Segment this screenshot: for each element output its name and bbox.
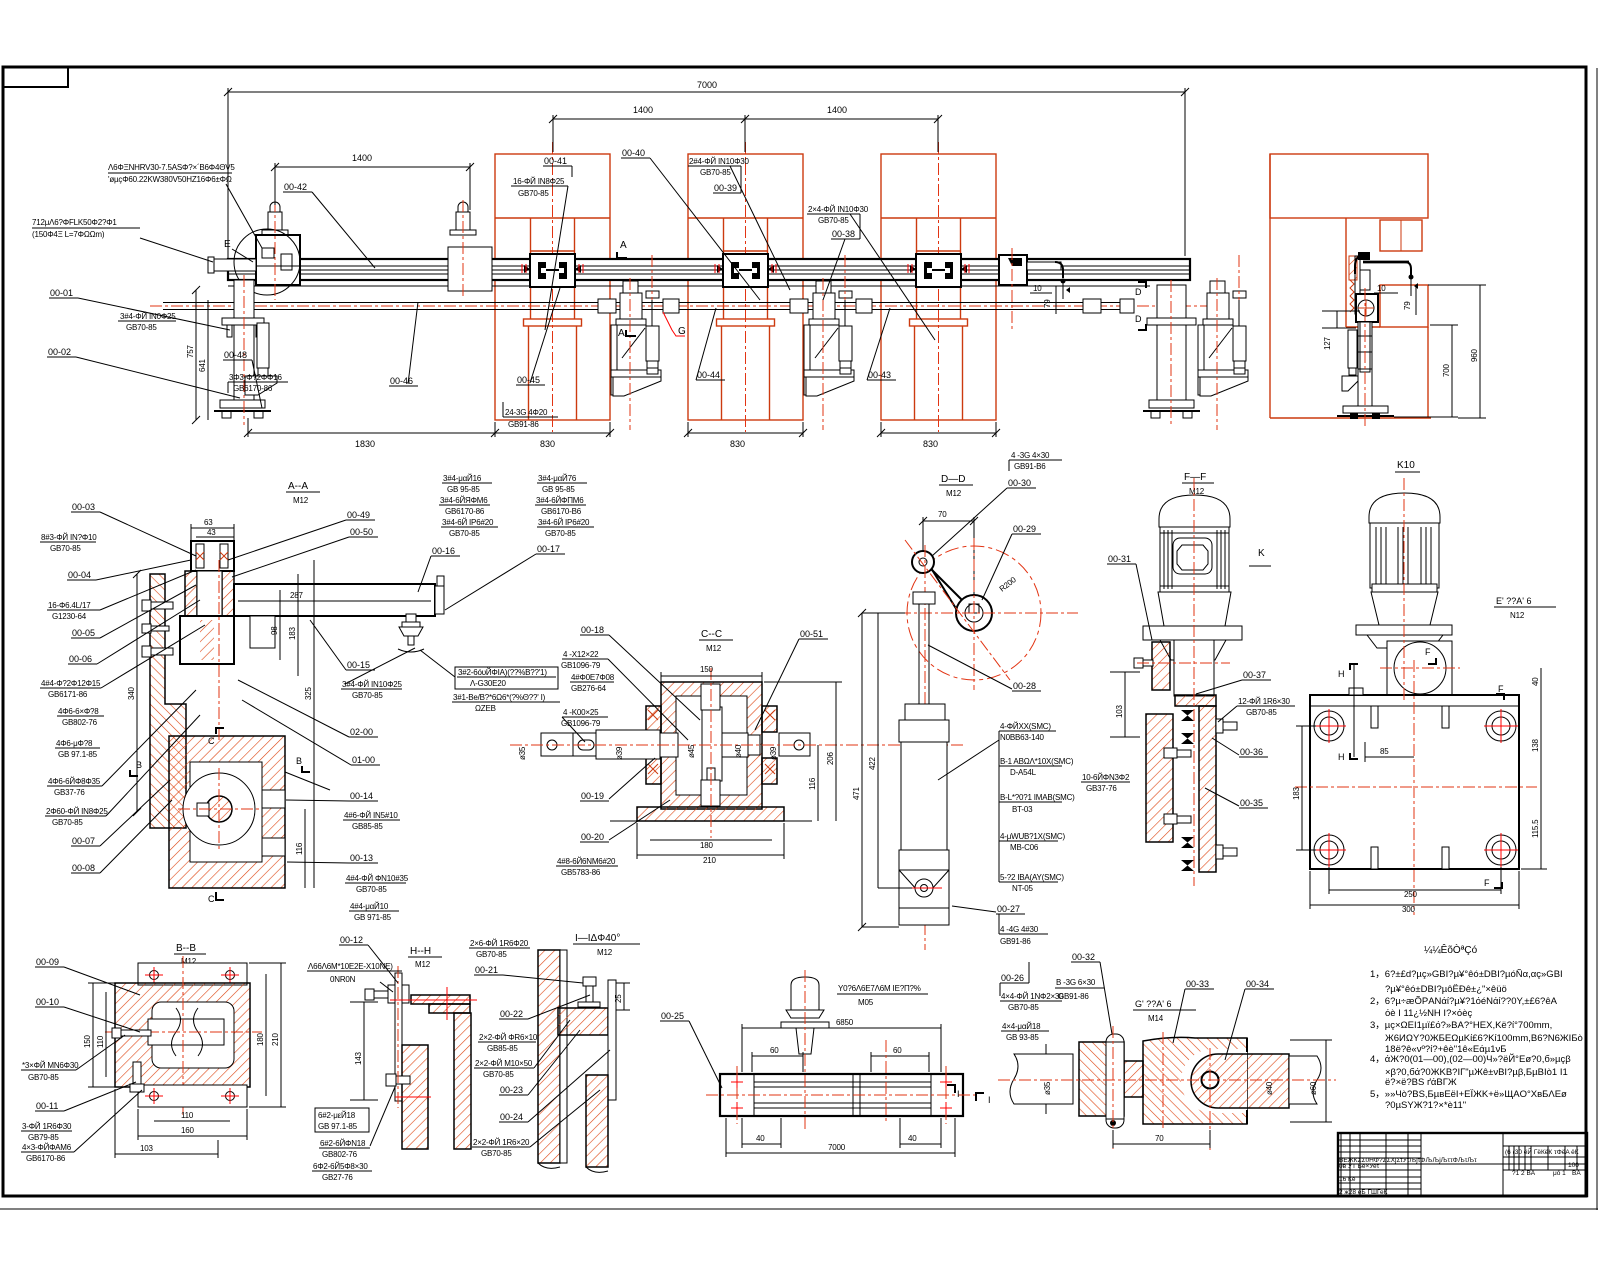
svg-text:110: 110: [181, 1111, 194, 1120]
side feeder clamp block: [1358, 252, 1370, 260]
svg-text:ΩΖΕΒ: ΩΖΕΒ: [475, 704, 496, 713]
dim 43: [196, 536, 234, 538]
svg-text:6#2-μεЙ18: 6#2-μεЙ18: [318, 1111, 356, 1120]
svg-text:00-09: 00-09: [36, 957, 59, 967]
bolt hole TR: [1486, 711, 1516, 741]
svg-text:GB70-85: GB70-85: [356, 885, 387, 894]
svg-text:GB 97.1-85: GB 97.1-85: [58, 750, 98, 759]
svg-text:F: F: [1425, 647, 1431, 657]
svg-text:I: I: [957, 1089, 960, 1099]
svg-text:ø35: ø35: [1043, 1081, 1052, 1095]
svg-text:3-ΦЙ 1R6Φ30: 3-ΦЙ 1R6Φ30: [22, 1122, 72, 1131]
svg-text:70: 70: [938, 510, 947, 519]
svg-text:79: 79: [1403, 301, 1412, 310]
svg-text:Ж6ИΩY?0ЖБEΩµKί£6?Kί100mm,B6?N6: Ж6ИΩY?0ЖБEΩµKί£6?Kί100mm,B6?N6ЖIБò: [1385, 1033, 1583, 1044]
press frame 3 (red): [881, 154, 996, 420]
svg-text:N0BB63-140: N0BB63-140: [1000, 733, 1045, 742]
dim 116: [304, 809, 306, 888]
bracket hatched: [558, 1008, 608, 1035]
svg-text:B-1 ABΩΛ*10Χ(SMC): B-1 ABΩΛ*10Χ(SMC): [1000, 757, 1074, 766]
dimension 7000: [228, 91, 1185, 93]
shaft coupling 4: [856, 299, 872, 313]
bolts right: [1216, 719, 1237, 733]
base plate: [1310, 695, 1519, 869]
svg-text:2 ж28 еБ ГШГеК: 2 ж28 еБ ГШГеК: [1339, 1189, 1388, 1196]
dim 103: [115, 1153, 218, 1155]
sheet corner zone box: [3, 67, 68, 87]
svg-text:40: 40: [756, 1134, 765, 1143]
svg-text:4-μWUB?1Χ(SMC): 4-μWUB?1Χ(SMC): [1000, 832, 1065, 841]
carriage bearing block 3: [910, 254, 967, 287]
svg-text:¼¼ÊõÒªÇó: ¼¼ÊõÒªÇó: [1424, 943, 1478, 956]
dim 110 left: [105, 992, 107, 1077]
side feeder screw column (red): [1350, 280, 1354, 312]
dim 60 right: [871, 1055, 929, 1057]
svg-text:3#4-6ЙЯΦΜ6: 3#4-6ЙЯΦΜ6: [440, 496, 488, 505]
svg-text:00-14: 00-14: [350, 791, 373, 801]
svg-text:ø40: ø40: [1265, 1081, 1274, 1095]
left stub shaft: [208, 257, 256, 273]
svg-text:70: 70: [1155, 1134, 1164, 1143]
svg-text:GB6170-B6: GB6170-B6: [541, 507, 582, 516]
svg-text:00-46: 00-46: [390, 376, 413, 386]
svg-text:GB70-85: GB70-85: [818, 216, 849, 225]
svg-text:GB70-85: GB70-85: [352, 691, 383, 700]
svg-text:GB27-76: GB27-76: [322, 1173, 353, 1182]
clamp bracket top: [191, 541, 234, 571]
motor flange: [1356, 625, 1452, 635]
shaft centerline: [510, 744, 965, 746]
bottom plate: [138, 1085, 247, 1107]
carriage bearing block 1: [524, 254, 581, 287]
suction cup unit: [398, 614, 424, 652]
svg-text:ë?×ë?BЅ ґάBГЖ: ë?×ë?BЅ ґάBГЖ: [1385, 1077, 1457, 1088]
centerline: [1193, 478, 1195, 886]
motor dome: [1159, 495, 1230, 527]
svg-text:BA: BA: [1572, 1170, 1581, 1177]
section marks I: [947, 1085, 955, 1093]
main beam: [228, 259, 1190, 280]
cylinder head: [899, 720, 949, 742]
bolt through plate: [365, 985, 409, 1003]
svg-text:NT-05: NT-05: [1012, 884, 1034, 893]
svg-text:641: 641: [198, 359, 207, 372]
side bolt 1: [142, 600, 173, 611]
dim 180: [265, 974, 267, 1096]
shaft left end: [541, 733, 573, 756]
svg-text:00-01: 00-01: [50, 288, 73, 298]
svg-text:00-20: 00-20: [581, 832, 604, 842]
svg-text:00-07: 00-07: [72, 836, 95, 846]
svg-text:GB70-85: GB70-85: [50, 544, 81, 553]
svg-text:1400: 1400: [633, 105, 653, 115]
motor dome: [1369, 493, 1440, 523]
svg-text:M14: M14: [1148, 1014, 1164, 1023]
svg-text:GB70-85: GB70-85: [28, 1073, 59, 1082]
svg-text:F: F: [1484, 878, 1490, 888]
dim 98: [279, 590, 281, 660]
svg-text:00-51: 00-51: [800, 629, 823, 639]
dim 79 side: [1415, 285, 1417, 315]
svg-text:40: 40: [1531, 677, 1540, 686]
svg-text:GB 971-85: GB 971-85: [354, 913, 392, 922]
svg-text:2×2-ΦЙ Μ10×50: 2×2-ΦЙ Μ10×50: [475, 1059, 533, 1068]
svg-text:00-34: 00-34: [1246, 979, 1269, 989]
svg-text:K10: K10: [1397, 460, 1415, 471]
drive shaft centerline: [150, 305, 1210, 307]
svg-text:F: F: [1498, 684, 1504, 694]
svg-text:116: 116: [295, 842, 304, 855]
svg-text:00-23: 00-23: [500, 1085, 523, 1095]
svg-text:μó 1: μó 1: [1553, 1170, 1566, 1177]
svg-text:2×4-ΦЙ ΙΝ10Φ30: 2×4-ΦЙ ΙΝ10Φ30: [808, 205, 869, 214]
svg-text:3，µç×ΩEI1µï£ό?»BA?°ΗEΧ,Kë?ί°70: 3，µç×ΩEI1µï£ό?»BA?°ΗEΧ,Kë?ί°700mm,: [1370, 1020, 1552, 1031]
svg-text:00-16: 00-16: [432, 546, 455, 556]
svg-text:3#4-6Й ΙΡ6#20: 3#4-6Й ΙΡ6#20: [442, 518, 494, 527]
lower plate hatched: [1146, 714, 1173, 842]
svg-text:79: 79: [1043, 299, 1052, 308]
svg-text:4#4-μαЙ10: 4#4-μαЙ10: [350, 902, 389, 911]
dimension 830 (frame1): [495, 432, 610, 434]
motor face plate: [1173, 538, 1212, 574]
shaft coupling 5: [1083, 299, 1101, 313]
shaft coupling 2: [663, 299, 679, 313]
dim 325: [313, 560, 315, 888]
svg-text:00-35: 00-35: [1240, 798, 1263, 808]
dim 138: [1540, 700, 1542, 787]
side leg base: [1343, 406, 1388, 413]
svg-text:3#1-Βе/Β?*6Ω6*(?%Θ??' Ι): 3#1-Βе/Β?*6Ω6*(?%Θ??' Ι): [453, 693, 546, 702]
left column hatched: [538, 950, 560, 1163]
motor bell: [1371, 592, 1438, 625]
left drive motor: [262, 202, 288, 235]
svg-text:183: 183: [1292, 787, 1301, 800]
svg-text:1400: 1400: [352, 153, 372, 163]
svg-text:4Φ6-μΦ?8: 4Φ6-μΦ?8: [56, 739, 93, 748]
svg-text:00-22: 00-22: [500, 1009, 523, 1019]
mid bolt: [386, 1074, 410, 1086]
svg-text:00-04: 00-04: [68, 570, 91, 580]
svg-text:M12: M12: [946, 489, 962, 498]
svg-text:287: 287: [290, 591, 303, 600]
svg-text:183: 183: [288, 627, 297, 640]
svg-text:GB70-85: GB70-85: [1008, 1003, 1039, 1012]
svg-text:250: 250: [1404, 890, 1417, 899]
svg-text:0в УΤ Бе×Уеτ: 0в УΤ Бе×Уеτ: [1339, 1163, 1380, 1170]
label G red: [663, 312, 685, 336]
svg-text:GB70-85: GB70-85: [476, 950, 507, 959]
dim 287 inside arm: [238, 600, 431, 602]
dim 40 right: [900, 1143, 941, 1145]
jack gearbox unit C: [1198, 281, 1248, 396]
svg-text:830: 830: [923, 439, 938, 449]
svg-text:GB37-76: GB37-76: [54, 788, 85, 797]
bolt hole BR: [1486, 835, 1516, 865]
svg-text:116: 116: [808, 777, 817, 790]
pump column: [1174, 640, 1214, 696]
side press column left edge: [1345, 218, 1347, 327]
right support leg: [1143, 285, 1200, 418]
svg-text:7000: 7000: [828, 1143, 846, 1152]
svg-text:4#4-Φ?2Φ12Φ15: 4#4-Φ?2Φ12Φ15: [41, 679, 101, 688]
top bar: [411, 995, 470, 1004]
svg-text:B: B: [136, 760, 142, 770]
svg-text:00-48: 00-48: [224, 350, 247, 360]
side bolt 2: [142, 646, 173, 657]
svg-text:3#4-6Й ΙΡ6#20: 3#4-6Й ΙΡ6#20: [538, 518, 590, 527]
press frame 1 centerline: [552, 142, 554, 432]
svg-text:00-44: 00-44: [697, 370, 720, 380]
svg-text:GB70-85: GB70-85: [700, 168, 731, 177]
svg-text:00-30: 00-30: [1008, 478, 1031, 488]
svg-text:2×2-ΦЙ 1R6×20: 2×2-ΦЙ 1R6×20: [473, 1138, 530, 1147]
svg-text:180: 180: [256, 1033, 265, 1046]
svg-text:GB5783-86: GB5783-86: [561, 868, 601, 877]
svg-text:M12: M12: [706, 644, 722, 653]
wall plate (hatched): [150, 574, 186, 828]
svg-text:ø60: ø60: [1309, 1081, 1318, 1095]
svg-text:A: A: [620, 240, 627, 251]
svg-text:B: B: [296, 756, 302, 766]
svg-text:340: 340: [127, 687, 136, 700]
svg-text:4×4-μαЙ18: 4×4-μαЙ18: [1002, 1022, 1041, 1031]
dim 700: [1451, 325, 1453, 417]
carriage bearing block 2: [717, 254, 774, 287]
dim 422: [877, 613, 879, 888]
svg-text:M12: M12: [415, 960, 431, 969]
svg-text:103: 103: [1115, 705, 1124, 718]
svg-text:2×2-ΦЙ ΦR6×10: 2×2-ΦЙ ΦR6×10: [479, 1033, 538, 1042]
svg-text:GB6170-86: GB6170-86: [445, 507, 485, 516]
svg-text:(6 (30 ёЙ ГёКёК τΦёΑ ёК: (6 (30 ёЙ ГёКёК τΦёΑ ёК: [1505, 1147, 1579, 1156]
second lifting unit body: [448, 247, 492, 291]
centerlines: [878, 612, 1078, 614]
svg-text:A: A: [618, 328, 625, 339]
dim 340: [136, 574, 138, 812]
base plate hatched: [637, 807, 784, 821]
leader to suction labels: [345, 648, 415, 684]
label 6#2 bolts: [315, 1108, 369, 1132]
dim 180: [650, 839, 772, 841]
press frame 2 centerline: [745, 142, 747, 432]
svg-text:00-29: 00-29: [1013, 524, 1036, 534]
svg-text:GB 95-85: GB 95-85: [447, 485, 480, 494]
dim 210: [637, 854, 784, 856]
svg-text:GB70-85: GB70-85: [1246, 708, 1277, 717]
svg-text:B-L*?0?1 IΜAB(SMC): B-L*?0?1 IΜAB(SMC): [1000, 793, 1075, 802]
svg-text:4#4-ΦЙ ΦΝ10#35: 4#4-ΦЙ ΦΝ10#35: [346, 874, 409, 883]
centerlines: [998, 1079, 1336, 1081]
svg-text:00-03: 00-03: [72, 502, 95, 512]
svg-text:00-37: 00-37: [1243, 670, 1266, 680]
lever crank: [917, 555, 962, 600]
svg-text:D—D: D—D: [941, 474, 965, 485]
dim 250: [1329, 889, 1501, 891]
svg-text:3#4-ΦЙ ΙΝ0Φ25: 3#4-ΦЙ ΙΝ0Φ25: [120, 312, 176, 321]
guide bar: [720, 1074, 963, 1116]
svg-text:00-45: 00-45: [517, 375, 540, 385]
dim 116: [817, 745, 819, 821]
side press outer left/bottom/right: [1269, 154, 1271, 418]
svg-text:0ΝR0Ν: 0ΝR0Ν: [330, 975, 356, 984]
red ticks at carriage 1: [522, 264, 583, 273]
svg-text:GB70-85: GB70-85: [518, 189, 549, 198]
shaft coupling 6: [1120, 299, 1134, 313]
svg-text:85: 85: [1380, 747, 1389, 756]
svg-text:40: 40: [908, 1134, 917, 1143]
svg-text:GB6170-86: GB6170-86: [26, 1154, 66, 1163]
svg-text:00-15: 00-15: [347, 660, 370, 670]
dimension 1400 (press 1-2): [553, 118, 745, 120]
svg-text:4#Φ0Ε7Φ08: 4#Φ0Ε7Φ08: [571, 673, 615, 682]
svg-text:Λ6ΦΞΝHRV30-7.5ASΦ?×´Β6Φ4ΘV5: Λ6ΦΞΝHRV30-7.5ASΦ?×´Β6Φ4ΘV5: [108, 163, 235, 172]
dim 150: [92, 983, 94, 1087]
svg-text:00-08: 00-08: [72, 863, 95, 873]
svg-text:00-26: 00-26: [1001, 973, 1024, 983]
svg-text:5，»»Чò?BЅ,БµвEëI+EΪЖK+ë»ЩAО°Χв: 5，»»Чò?BЅ,БµвEëI+EΪЖK+ë»ЩAО°ΧвБΛEø: [1370, 1089, 1567, 1100]
dim 183 left: [1301, 726, 1303, 850]
svg-text:150: 150: [700, 665, 713, 674]
svg-text:GB802-76: GB802-76: [62, 718, 98, 727]
detail circle E: [234, 229, 300, 295]
svg-text:12-ΦЙ 1R6×30: 12-ΦЙ 1R6×30: [1238, 697, 1291, 706]
left leg lifting cylinder: [245, 323, 277, 395]
svg-text:GB79-85: GB79-85: [28, 1133, 59, 1142]
svg-text:GB1096-79: GB1096-79: [561, 719, 601, 728]
svg-text:GB70-85: GB70-85: [545, 529, 576, 538]
svg-text:24-3G 4Φ20: 24-3G 4Φ20: [505, 408, 548, 417]
fork body hatched: [1143, 1037, 1247, 1124]
svg-text:GB6171-86: GB6171-86: [48, 690, 88, 699]
left lower column hatched: [402, 1045, 428, 1149]
dimension 641: [207, 300, 209, 420]
svg-text:(150Φ4Ξ L=7ΦΩΩm): (150Φ4Ξ L=7ΦΩΩm): [32, 230, 105, 239]
svg-text:Λ-G30Ε20: Λ-G30Ε20: [470, 679, 507, 688]
dim 40: [1540, 668, 1542, 700]
dim 183: [297, 574, 299, 676]
bolt hole TL: [1314, 711, 1344, 741]
top plate: [138, 963, 247, 985]
cylinder body: [901, 742, 947, 850]
svg-text:MB-C06: MB-C06: [1010, 843, 1039, 852]
svg-text:02-00: 02-00: [350, 727, 373, 737]
svg-text:60: 60: [893, 1046, 902, 1055]
svg-text:GB 97.1-85: GB 97.1-85: [318, 1122, 358, 1131]
svg-text:4 -Κ00×25: 4 -Κ00×25: [563, 708, 599, 717]
right column hatched: [454, 1013, 471, 1149]
svg-text:GB37-76: GB37-76: [1086, 784, 1117, 793]
svg-text:E' ??A' 6: E' ??A' 6: [1496, 596, 1531, 606]
press frame 3 centerline: [938, 142, 940, 432]
svg-text:00-33: 00-33: [1186, 979, 1209, 989]
dimension 1400 (units): [275, 166, 470, 168]
svg-text:2×6-ΦЙ 1R6Φ20: 2×6-ΦЙ 1R6Φ20: [470, 939, 529, 948]
svg-text:00-24: 00-24: [500, 1112, 523, 1122]
clevis eye block hatched: [1191, 1054, 1289, 1108]
second lifting unit motor: [450, 202, 476, 235]
drive shaft: [163, 302, 1131, 304]
svg-text:4 -3G 4×30: 4 -3G 4×30: [1011, 451, 1050, 460]
svg-text:00-21: 00-21: [475, 965, 498, 975]
centerlines: [1403, 478, 1405, 700]
unit centerline: [274, 200, 276, 300]
cylinder top cap: [905, 704, 945, 720]
right end drive unit: [999, 255, 1070, 299]
R200 circle red: [907, 546, 1041, 680]
svg-text:'øµçΦ60.22KW380V50HZ16Φ6±ΦΩ: 'øµçΦ60.22KW380V50HZ16Φ6±ΦΩ: [108, 175, 232, 184]
svg-text:325: 325: [304, 687, 313, 700]
dim 10 side: [1374, 292, 1398, 294]
svg-text:143: 143: [354, 1052, 363, 1065]
svg-text:K: K: [1258, 548, 1265, 559]
red ticks at carriage 3: [908, 264, 969, 273]
motor body: [1160, 527, 1229, 592]
left stud: [112, 1028, 151, 1038]
clevis clearance gap: [1181, 1049, 1247, 1113]
left bracket hatched: [1152, 642, 1170, 690]
svg-text:00-02: 00-02: [48, 347, 71, 357]
svg-text:3#4-μαЙ76: 3#4-μαЙ76: [538, 474, 577, 483]
dim 160: [138, 1135, 247, 1137]
svg-text:D: D: [1135, 314, 1142, 324]
dim 210: [280, 963, 282, 1107]
sheet outer edge bottom: [0, 1208, 1598, 1210]
dim 60 left: [752, 1055, 803, 1057]
svg-text:2Φ60-ΦЙ ΙΝ8Φ25: 2Φ60-ΦЙ ΙΝ8Φ25: [46, 807, 108, 816]
svg-text:H--H: H--H: [410, 946, 431, 957]
svg-text:G' ??A' 6: G' ??A' 6: [1135, 999, 1171, 1009]
svg-text:00-42: 00-42: [284, 182, 307, 192]
body hatched: [115, 983, 250, 1087]
gear: [702, 707, 722, 781]
shaft right: [722, 733, 748, 757]
side leg column: [1358, 322, 1372, 406]
svg-text:2，6?µ÷æÕPΑNάί?µ¥?1όéNάί??0Y,±£: 2，6?µ÷æÕPΑNάί?µ¥?1όéNάί??0Y,±£6?êΑ: [1370, 996, 1558, 1007]
lower column hatched: [586, 1075, 608, 1167]
right grid: [1502, 1133, 1504, 1196]
svg-text:GB85-85: GB85-85: [487, 1044, 518, 1053]
svg-text:00-13: 00-13: [350, 853, 373, 863]
dim 25: [623, 983, 625, 1010]
svg-text:00-49: 00-49: [347, 510, 370, 520]
svg-text:00-25: 00-25: [661, 1011, 684, 1021]
svg-text:10: 10: [1377, 284, 1386, 293]
svg-text:160: 160: [181, 1126, 194, 1135]
dim 143: [363, 1002, 365, 1100]
left shaft: [1010, 1054, 1073, 1104]
svg-text:00-31: 00-31: [1108, 554, 1131, 564]
arm under bracket: [250, 616, 275, 648]
svg-text:00-50: 00-50: [350, 527, 373, 537]
svg-text:GB802-76: GB802-76: [322, 1150, 358, 1159]
svg-text:G1230-64: G1230-64: [52, 612, 87, 621]
svg-text:?1 2 BA: ?1 2 BA: [1512, 1170, 1536, 1177]
piston rod: [913, 592, 935, 604]
svg-text:G: G: [678, 326, 686, 337]
side press frame throat window: [1380, 220, 1422, 251]
svg-text:1830: 1830: [355, 439, 375, 449]
svg-text:4#8-6Й6ΝΜ6#20: 4#8-6Й6ΝΜ6#20: [557, 857, 616, 866]
svg-text:60: 60: [770, 1046, 779, 1055]
svg-text:GB70-85: GB70-85: [449, 529, 480, 538]
thin plate: [608, 980, 616, 1100]
svg-text:4 -Χ12×22: 4 -Χ12×22: [563, 650, 599, 659]
full width row line: [1338, 1163, 1587, 1165]
svg-text:98: 98: [270, 626, 279, 635]
svg-text:00-11: 00-11: [36, 1101, 58, 1111]
dim 110 bottom: [154, 1120, 230, 1122]
side press bed block: [1380, 285, 1428, 327]
